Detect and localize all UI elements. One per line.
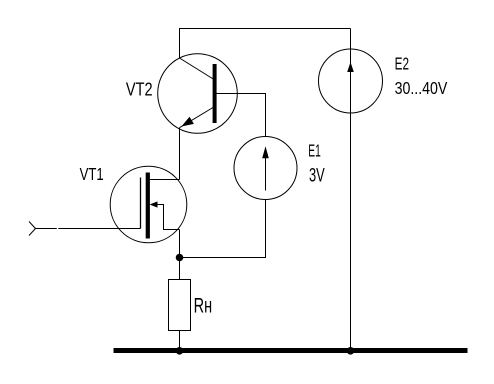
wire node to E1 bottom xyxy=(180,200,266,258)
wire E2 branch vertical xyxy=(350,29,352,351)
svg-text:3V: 3V xyxy=(309,165,325,187)
wire node to resistor xyxy=(179,258,181,280)
wire VT2 emitter to VT1 drain xyxy=(179,127,181,179)
junction dot resistor-rail xyxy=(176,347,184,355)
transistor VT2 xyxy=(158,54,238,134)
svg-text:VT2: VT2 xyxy=(126,79,153,100)
wire top bus from VT2 collector to E2 xyxy=(180,29,351,59)
wire resistor to ground rail xyxy=(179,331,181,351)
svg-text:Rн: Rн xyxy=(194,294,213,318)
node junction dot at VT1 source xyxy=(176,254,184,262)
wire input lead to VT1 gate xyxy=(36,228,141,230)
transistor VT1 (MOSFET) xyxy=(110,166,187,243)
wire VT1 source to node xyxy=(179,230,181,259)
source E2 arrow xyxy=(319,49,383,113)
wire VT2 base to E1 top xyxy=(216,94,266,137)
junction dot E2-rail xyxy=(347,347,355,355)
source E1 xyxy=(234,137,297,200)
svg-text:30...40V: 30...40V xyxy=(395,78,448,98)
input terminal chevron xyxy=(29,222,36,236)
svg-text:E2: E2 xyxy=(395,54,409,74)
svg-text:E1: E1 xyxy=(308,140,321,160)
resistor RH xyxy=(169,280,191,331)
ground rail (common bus) xyxy=(114,348,468,353)
svg-text:VT1: VT1 xyxy=(80,164,104,184)
